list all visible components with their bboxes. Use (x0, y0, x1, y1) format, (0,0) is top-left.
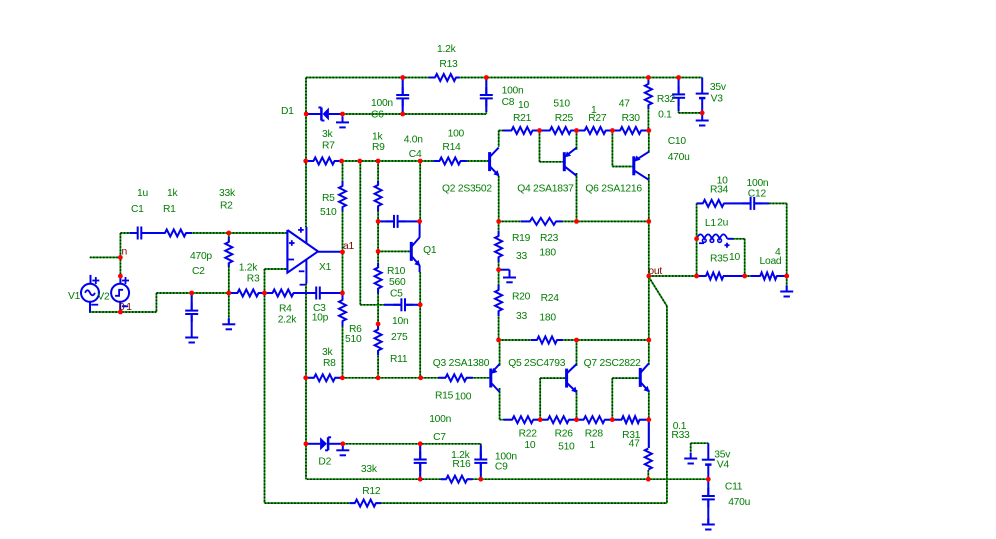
svg-text:C6: C6 (371, 110, 384, 121)
svg-text:47: 47 (629, 439, 640, 450)
svg-text:R10: R10 (387, 266, 406, 277)
svg-text:L1: L1 (705, 218, 716, 229)
svg-text:R13: R13 (439, 59, 458, 70)
svg-text:R21: R21 (513, 113, 532, 124)
svg-text:1u: 1u (137, 188, 148, 199)
svg-text:R9: R9 (372, 142, 385, 153)
svg-text:R14: R14 (442, 142, 461, 153)
svg-text:V2: V2 (97, 292, 110, 303)
svg-text:R19: R19 (512, 233, 531, 244)
svg-text:Q5 2SC4793: Q5 2SC4793 (508, 358, 566, 369)
svg-text:180: 180 (539, 248, 556, 259)
svg-text:C11: C11 (725, 482, 743, 493)
svg-text:0.1: 0.1 (658, 110, 672, 121)
svg-text:V1: V1 (68, 291, 81, 302)
svg-text:R2: R2 (220, 201, 233, 212)
svg-text:470p: 470p (190, 251, 212, 262)
svg-text:R16: R16 (452, 459, 471, 470)
svg-text:a1: a1 (343, 241, 354, 252)
svg-text:100n: 100n (371, 98, 393, 109)
svg-text:Q1: Q1 (423, 245, 437, 256)
svg-text:R35: R35 (710, 253, 729, 264)
svg-text:100n: 100n (747, 178, 769, 189)
svg-text:R30: R30 (622, 113, 641, 124)
svg-text:510: 510 (553, 99, 570, 110)
svg-text:510: 510 (558, 441, 575, 452)
svg-text:R28: R28 (585, 429, 604, 440)
svg-text:C2: C2 (192, 266, 205, 277)
svg-text:R15: R15 (435, 390, 454, 401)
svg-text:1k: 1k (372, 132, 383, 143)
svg-text:1.2k: 1.2k (437, 44, 457, 55)
svg-text:33k: 33k (361, 464, 378, 475)
svg-text:100: 100 (455, 392, 472, 403)
svg-text:0: 0 (119, 302, 125, 313)
svg-text:C12: C12 (748, 188, 767, 199)
svg-text:2u: 2u (717, 218, 728, 229)
svg-text:4.0n: 4.0n (404, 135, 424, 146)
svg-text:1: 1 (589, 440, 595, 451)
svg-text:R20: R20 (512, 292, 531, 303)
svg-text:C8: C8 (502, 97, 515, 108)
svg-text:R27: R27 (588, 113, 607, 124)
svg-text:Q6 2SA1216: Q6 2SA1216 (585, 184, 642, 195)
svg-text:Load: Load (760, 256, 782, 267)
svg-text:R4: R4 (279, 304, 292, 315)
svg-text:C9: C9 (495, 462, 508, 473)
svg-text:35v: 35v (714, 449, 731, 460)
svg-text:R7: R7 (322, 141, 335, 152)
svg-text:R8: R8 (323, 358, 336, 369)
svg-text:510: 510 (345, 334, 362, 345)
svg-text:C5: C5 (390, 289, 403, 300)
svg-text:100: 100 (448, 129, 465, 140)
svg-text:100n: 100n (429, 414, 451, 425)
svg-text:35v: 35v (710, 82, 727, 93)
svg-text:1.2k: 1.2k (239, 263, 259, 274)
svg-text:560: 560 (389, 277, 406, 288)
svg-text:Q7 2SC2822: Q7 2SC2822 (584, 358, 642, 369)
svg-text:R3: R3 (247, 274, 260, 285)
svg-text:out: out (648, 266, 662, 277)
svg-text:47: 47 (619, 99, 630, 110)
svg-text:33: 33 (516, 311, 527, 322)
svg-text:1k: 1k (167, 188, 178, 199)
svg-text:10n: 10n (392, 316, 409, 327)
svg-text:R34: R34 (710, 185, 729, 196)
svg-text:D1: D1 (281, 106, 294, 117)
svg-text:275: 275 (391, 332, 408, 343)
svg-text:R25: R25 (555, 113, 574, 124)
svg-text:100n: 100n (502, 86, 524, 97)
svg-text:3k: 3k (322, 129, 333, 140)
svg-text:V4: V4 (717, 460, 730, 471)
svg-text:R24: R24 (541, 293, 560, 304)
svg-text:V3: V3 (711, 93, 724, 104)
svg-text:Q2 2S3502: Q2 2S3502 (442, 184, 492, 195)
svg-text:10p: 10p (312, 312, 329, 323)
svg-text:C7: C7 (433, 432, 446, 443)
svg-text:R11: R11 (390, 354, 408, 365)
svg-text:470u: 470u (668, 152, 690, 163)
svg-text:C1: C1 (131, 204, 144, 215)
svg-text:R22: R22 (519, 429, 538, 440)
svg-text:X1: X1 (319, 262, 332, 273)
svg-text:Q3 2SA1380: Q3 2SA1380 (433, 358, 490, 369)
svg-text:510: 510 (320, 207, 337, 218)
svg-text:R33: R33 (671, 430, 690, 441)
svg-text:Q4 2SA1837: Q4 2SA1837 (517, 184, 574, 195)
svg-text:470u: 470u (728, 497, 750, 508)
svg-text:R12: R12 (362, 486, 381, 497)
svg-text:R26: R26 (555, 429, 574, 440)
svg-text:3k: 3k (322, 347, 333, 358)
svg-text:33: 33 (516, 251, 527, 262)
svg-text:n: n (122, 247, 128, 258)
svg-text:D2: D2 (318, 456, 331, 467)
svg-text:R23: R23 (540, 233, 559, 244)
svg-text:R5: R5 (322, 193, 335, 204)
svg-text:180: 180 (539, 312, 556, 323)
svg-text:2.2k: 2.2k (278, 314, 298, 325)
svg-text:10: 10 (524, 440, 535, 451)
svg-text:C10: C10 (668, 136, 687, 147)
svg-text:C4: C4 (409, 149, 422, 160)
svg-text:R1: R1 (163, 204, 176, 215)
svg-text:10: 10 (518, 100, 529, 111)
svg-text:R32: R32 (657, 94, 676, 105)
svg-text:1: 1 (126, 302, 132, 313)
svg-text:33k: 33k (219, 188, 236, 199)
svg-text:10: 10 (729, 252, 740, 263)
